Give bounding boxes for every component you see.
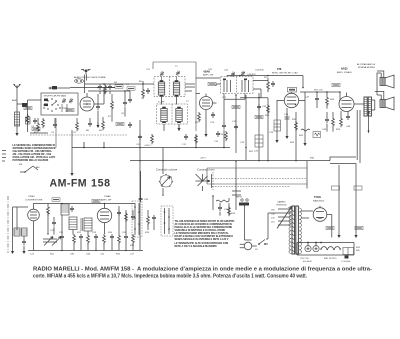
long vertical x140 — [139, 120, 141, 251]
components right of 6T8 — [315, 83, 340, 108]
switch wafer 1 — [132, 201, 142, 237]
wires left of box — [28, 100, 49, 133]
tube 6T8 — [284, 92, 298, 107]
tube V2 6BA6 — [200, 94, 213, 110]
svg-text:+250 V: +250 V — [144, 145, 152, 147]
hanging row center — [136, 131, 227, 146]
small part right of coil — [70, 206, 74, 212]
margin scan marks — [2, 151, 6, 162]
svg-text:6T8: 6T8 — [277, 68, 282, 71]
tube AM2 — [97, 206, 111, 223]
verticals to bottom rail — [34, 206, 134, 251]
margin scan marks — [2, 151, 6, 162]
resistor at 48 — [47, 204, 50, 216]
top rail AM — [34, 204, 136, 208]
svg-text:C 2x20uF: C 2x20uF — [341, 261, 351, 263]
switch wafer 2 — [161, 206, 173, 236]
tube AM1 — [28, 207, 40, 221]
wire: top rail to 6T8 — [227, 76, 303, 89]
wire: top-left rails — [50, 84, 143, 91]
mains plug — [240, 242, 257, 250]
dash-dot boundary bottom-left — [7, 196, 9, 253]
bottom black part — [345, 256, 349, 259]
parts between wafers — [145, 210, 156, 234]
hanging components row left — [34, 117, 104, 134]
svg-text:SENZA SEGNALE IN ANTENNA E RET: SENZA SEGNALE IN ANTENNA E RETE A 125 V — [175, 238, 229, 241]
parts right of note — [212, 195, 236, 216]
antenna coupling coil — [15, 112, 20, 126]
svg-text:C51 C52: C51 C52 — [300, 258, 309, 260]
svg-text:ALTOPARLANTI A: ALTOPARLANTI A — [357, 63, 376, 66]
grounds — [11, 248, 14, 254]
right column parts — [117, 210, 135, 222]
svg-text:TENSIONI: TENSIONI — [276, 205, 287, 207]
FM tuner box — [41, 93, 78, 115]
output transformer — [364, 97, 371, 116]
svg-text:C42 R20: C42 R20 — [255, 70, 264, 72]
primary winding bumps — [289, 208, 291, 254]
ratio detector can dashed — [221, 70, 257, 94]
components right of can — [222, 70, 275, 100]
osc coil 3 — [81, 218, 92, 231]
mid rail y147 — [72, 147, 230, 149]
mains switch — [255, 240, 268, 252]
svg-text:CONVERTITORE: CONVERTITORE — [25, 200, 43, 202]
svg-text:AMPL. MF: AMPL. MF — [101, 199, 112, 202]
svg-text:corte. MF/AM a 455 kc/s a MF/F: corte. MF/AM a 455 kc/s a MF/FM a 10,7 M… — [33, 274, 307, 280]
coupling transformer — [14, 228, 27, 236]
svg-text:6AQ5: 6AQ5 — [341, 68, 348, 71]
svg-text:AM: AM — [36, 166, 39, 169]
IF can 1 dashed — [154, 71, 185, 97]
vertical x307 — [306, 161, 308, 189]
mid rail y160.6 — [130, 160, 330, 162]
tube 6AQ5 — [339, 93, 354, 112]
wires between cans — [162, 87, 196, 105]
FM AM switch symbol — [19, 164, 39, 173]
label box left of can — [208, 82, 216, 85]
svg-text:FM: FM — [19, 164, 22, 166]
bottom components row — [60, 234, 134, 244]
secondary winding bumps — [299, 208, 301, 254]
wire: 6T8 out to right — [300, 92, 340, 96]
tuning cap arrows — [43, 237, 61, 246]
twin lead input — [75, 79, 84, 83]
terminal blob left — [49, 86, 57, 89]
wire: V1 plate — [94, 87, 115, 104]
svg-text:40+40uF: 40+40uF — [303, 261, 312, 263]
inner box right — [343, 248, 354, 255]
wires around can — [216, 81, 268, 100]
small box above 6T8 — [288, 88, 297, 93]
rail stubs — [84, 142, 104, 148]
svg-text:RETE A 160 V E SEGNALE MASSIMO: RETE A 160 V E SEGNALE MASSIMO — [175, 245, 217, 248]
speaker 1 — [380, 73, 394, 88]
svg-text:AMPL. FINALE: AMPL. FINALE — [337, 71, 352, 74]
corner to B+ drops — [330, 157, 356, 164]
wire: grid coupling — [339, 92, 364, 104]
ferrite/osc coil 1 — [61, 204, 69, 215]
components left of IF can — [128, 81, 150, 103]
antenna FM dipole — [81, 69, 91, 74]
svg-text:Comando volume: Comando volume — [156, 168, 178, 172]
components right of V1 — [98, 84, 112, 94]
svg-text:+85 V: +85 V — [200, 158, 206, 160]
speaker 2 — [380, 95, 394, 110]
filter ladder rails — [297, 243, 354, 256]
wire: can1 top rail — [153, 62, 196, 131]
voltage selector taps — [271, 207, 292, 229]
svg-text:RADIO MARELLI - Mod. AM/FM 158: RADIO MARELLI - Mod. AM/FM 158 - — [33, 267, 134, 273]
loop antenna wires — [13, 207, 29, 248]
svg-text:AM-FM: AM-FM — [50, 177, 88, 189]
label boxes on B+ — [332, 186, 363, 190]
svg-text:158: 158 — [91, 177, 111, 189]
note block 1 — [13, 144, 57, 162]
chassis dashed line left — [30, 134, 128, 136]
blob right of coil — [26, 117, 31, 124]
antenna AM rod — [14, 84, 21, 95]
components under controls — [139, 171, 149, 202]
svg-text:12BE6: 12BE6 — [28, 196, 35, 198]
wire: 6T8 grid/plate — [277, 100, 305, 102]
rail stubs — [84, 142, 104, 148]
linkage box — [207, 168, 307, 184]
cathode parts under 6AQ5 — [336, 111, 351, 131]
wire: V2 — [196, 78, 220, 131]
svg-text:POSTERIORE DELLO CHASSIS: POSTERIORE DELLO CHASSIS — [13, 159, 49, 162]
speaker field wires down — [357, 110, 360, 163]
svg-text:CAMBIO: CAMBIO — [277, 201, 286, 204]
IF can 2 dashed — [157, 104, 188, 131]
svg-text:GRUPPO AF-FM 6AB4: GRUPPO AF-FM 6AB4 — [44, 95, 67, 98]
svg-text:AMPL. MF: AMPL. MF — [203, 74, 214, 77]
svg-text:RETE: RETE — [236, 197, 242, 199]
electrolytic capacitors — [305, 243, 319, 252]
svg-text:RIVEL. MF, FM, BF e CAV: RIVEL. MF, FM, BF e CAV — [272, 72, 298, 75]
B+ labels — [326, 226, 334, 229]
svg-text:12BA6: 12BA6 — [104, 195, 111, 198]
cap below — [22, 239, 26, 245]
svg-text:IMP. FILTRO: IMP. FILTRO — [324, 258, 337, 260]
small parts under V2 — [195, 112, 215, 124]
power transformer core — [289, 206, 301, 254]
volume pot dial — [159, 174, 173, 187]
rectifier tube — [313, 206, 327, 222]
labelled boxes top — [115, 85, 123, 88]
wire: speaker feeds — [371, 71, 383, 110]
B+ verticals with arrows — [338, 165, 340, 232]
wire: selector left — [266, 213, 278, 239]
note block 2 — [175, 220, 235, 248]
wire: transformer to rectifier — [300, 211, 332, 243]
vertical x72 with arrow — [71, 130, 73, 170]
filter chokes — [321, 247, 340, 250]
svg-text:BOBINA MOBILE: BOBINA MOBILE — [358, 66, 376, 69]
svg-text:5Y3/G: 5Y3/G — [314, 196, 321, 199]
svg-text:R27 1 M: R27 1 M — [314, 90, 322, 92]
mid verticals cluster — [232, 92, 310, 161]
osc coil 2 — [69, 217, 77, 230]
wire and part to right — [17, 103, 28, 105]
junction dots on rails — [139, 147, 260, 162]
wire: terminals down — [245, 206, 252, 241]
antenna feeder wires — [85, 75, 87, 94]
svg-text:RADDRIZZ.: RADDRIZZ. — [313, 200, 325, 203]
junction dots — [47, 233, 126, 251]
tone pot starburst — [196, 174, 212, 191]
wire: antenna down — [16, 95, 18, 130]
wire: selector to primary — [289, 209, 292, 225]
tube V1 6AB4 — [80, 93, 94, 111]
svg-text:1a MF: 1a MF — [158, 102, 165, 104]
bottom rail AM — [28, 250, 143, 252]
components left column — [24, 106, 44, 130]
svg-text:A modulazione d’ampiezza in on: A modulazione d’ampiezza in onde medie e… — [137, 267, 372, 273]
mains input terminals — [236, 197, 249, 206]
vertical x163 x196 — [163, 135, 196, 174]
